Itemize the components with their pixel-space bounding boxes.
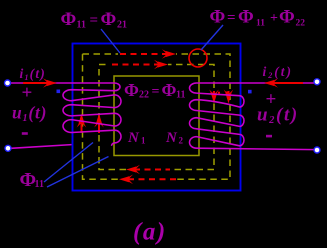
svg-text:(a): (a)	[133, 219, 167, 246]
svg-text:22: 22	[296, 19, 306, 29]
svg-text:u2(t): u2(t)	[257, 105, 299, 127]
svg-text:Φ: Φ	[124, 80, 139, 100]
svg-text:Φ: Φ	[61, 9, 77, 30]
svg-text:Φ: Φ	[162, 80, 177, 100]
svg-text:=: =	[227, 10, 236, 26]
svg-text:+: +	[22, 83, 33, 104]
svg-text:=: =	[152, 85, 160, 100]
svg-text:u1(t): u1(t)	[12, 103, 47, 125]
svg-text:22: 22	[139, 90, 149, 101]
svg-text:1: 1	[141, 136, 146, 146]
svg-text:11: 11	[77, 20, 86, 31]
svg-text:11: 11	[256, 19, 265, 29]
svg-text:Φ: Φ	[210, 7, 226, 28]
svg-text:Φ: Φ	[238, 7, 254, 28]
svg-text:=: =	[90, 13, 99, 29]
svg-text:i2(t): i2(t)	[263, 64, 294, 80]
svg-text:+: +	[270, 11, 278, 26]
svg-text:2: 2	[179, 136, 184, 146]
svg-text:11: 11	[176, 90, 185, 101]
svg-text:Φ: Φ	[101, 9, 117, 30]
svg-text:21: 21	[117, 20, 127, 31]
svg-text:+: +	[266, 89, 277, 110]
svg-text:N: N	[165, 130, 178, 146]
svg-text:N: N	[127, 130, 140, 146]
svg-text:i1(t): i1(t)	[20, 66, 47, 82]
svg-text:Φ: Φ	[279, 7, 295, 28]
svg-text:11: 11	[35, 179, 44, 190]
